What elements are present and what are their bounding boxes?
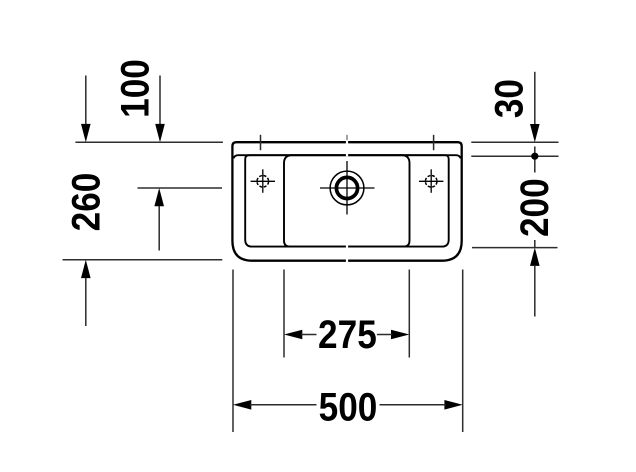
dim 260 bottom arrow <box>81 260 91 326</box>
optional tap hole left <box>251 169 275 193</box>
svg-text:275: 275 <box>318 312 377 357</box>
dim 500 arrows <box>233 400 463 410</box>
dimension reference line tap-center-left <box>138 187 223 189</box>
svg-text:100: 100 <box>113 59 158 118</box>
extension line 275 left <box>283 270 285 358</box>
dimension reference line wall-left <box>75 141 223 143</box>
basin outer outline <box>232 142 461 261</box>
dim 100 bottom arrow <box>154 188 164 251</box>
centerline tick top <box>346 135 348 140</box>
basin deck inner line <box>234 155 461 158</box>
dim 275 arrows <box>284 330 409 340</box>
extension line 275 right <box>408 270 410 358</box>
extension line 500 right <box>462 270 464 433</box>
dimension reference line front-left <box>63 259 223 261</box>
faucet hole U1 <box>320 161 375 215</box>
dimension reference line wall-right <box>471 141 558 143</box>
dim 200 bottom arrow <box>530 240 540 317</box>
extension line 500 left <box>232 270 234 433</box>
basin inner rim outline <box>245 155 449 246</box>
svg-text:500: 500 <box>319 384 378 429</box>
svg-text:200: 200 <box>512 178 557 237</box>
basin middle bowl outline <box>284 155 410 246</box>
dim 260 top arrow <box>81 76 91 143</box>
node rim-front marker dot <box>531 147 538 173</box>
svg-text:30: 30 <box>486 79 531 118</box>
dim 30 arrow <box>530 72 540 143</box>
rim tick right <box>433 135 435 150</box>
optional tap hole right <box>419 169 443 193</box>
centerline gap marks <box>346 141 348 262</box>
dimension reference line fixing-right <box>472 247 558 249</box>
dim 100 top arrow <box>155 76 165 143</box>
dimension reference line rim-front-right <box>471 155 558 157</box>
rim tick left <box>260 135 262 150</box>
svg-text:260: 260 <box>64 173 109 232</box>
